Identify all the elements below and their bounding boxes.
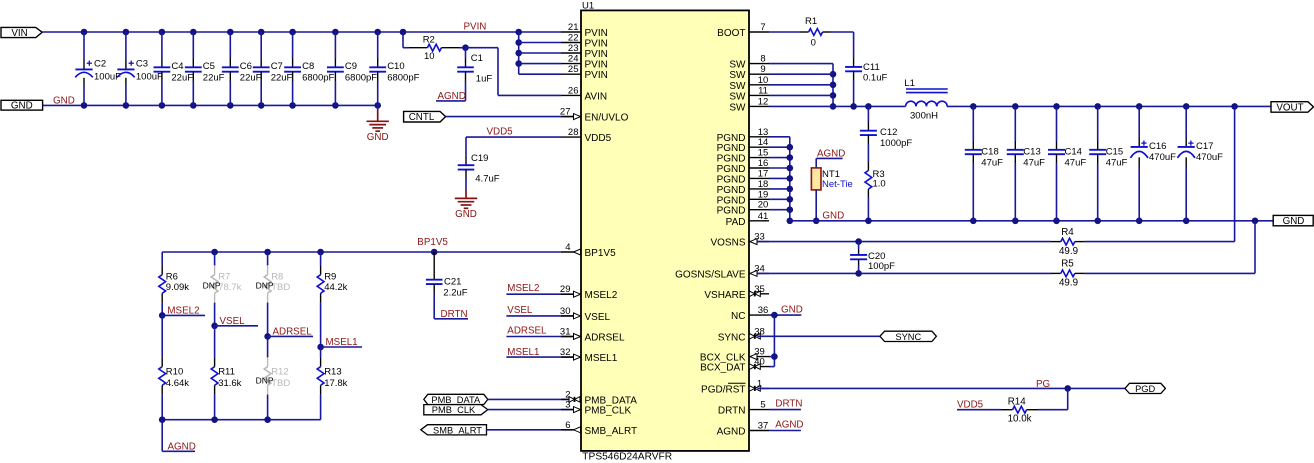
U1 pin 4 BP1V5 [561, 242, 616, 259]
svg-text:2.2uF: 2.2uF [443, 288, 467, 299]
svg-text:C11: C11 [863, 62, 880, 73]
port GND (left) [1, 100, 43, 111]
svg-text:VOSNS: VOSNS [710, 238, 745, 249]
svg-text:100uF: 100uF [136, 72, 163, 83]
svg-text:PMB_DATA: PMB_DATA [431, 395, 481, 405]
U1 pin 29 MSEL2 [560, 284, 618, 301]
port PGD [1125, 383, 1166, 394]
net label VSEL (pin 30) [506, 305, 573, 316]
wire PGD/RST [757, 385, 1125, 392]
resistor R9 [317, 252, 347, 347]
capacitor C19 [458, 153, 500, 190]
wire NC/BCX tie [769, 312, 801, 367]
svg-text:C6: C6 [240, 61, 252, 72]
svg-text:BOOT: BOOT [717, 28, 745, 39]
svg-text:8: 8 [760, 54, 765, 65]
svg-text:GND: GND [11, 101, 33, 112]
svg-text:PVIN: PVIN [585, 60, 608, 71]
svg-text:23: 23 [568, 43, 579, 54]
svg-text:25: 25 [568, 64, 579, 75]
power port AGND (divider) [162, 420, 196, 453]
svg-text:TBD: TBD [271, 378, 290, 389]
svg-text:DNP: DNP [256, 376, 274, 386]
U1 pin 39 BCX_CLK [700, 347, 769, 364]
svg-text:BP1V5: BP1V5 [585, 248, 617, 259]
svg-text:R10: R10 [166, 367, 183, 378]
svg-text:SYNC: SYNC [895, 332, 921, 342]
svg-text:PVIN: PVIN [464, 22, 487, 33]
U1 pin 2 PMB_DATA [561, 389, 637, 406]
resistor R13 [317, 347, 347, 420]
capacitor C14 [1048, 106, 1086, 220]
U1 pin 34 GOSNS/SLAVE [675, 263, 769, 280]
ground symbol (input rail) [367, 105, 389, 142]
port VOUT [1271, 102, 1314, 114]
svg-text:ADRSEL: ADRSEL [273, 326, 313, 337]
U1 pin 24 PVIN [561, 54, 608, 71]
U1 pin 23 PVIN [561, 43, 608, 60]
svg-text:470uF: 470uF [1149, 152, 1176, 163]
wire AVIN [466, 48, 562, 96]
svg-text:6800pF: 6800pF [387, 73, 419, 84]
svg-text:SW: SW [729, 70, 746, 81]
svg-text:PGND: PGND [717, 164, 746, 175]
capacitor C10 [369, 32, 419, 105]
wire VOUT rail [947, 103, 1271, 110]
capacitor C9 [327, 32, 377, 105]
U1 pin 26 AVIN [561, 85, 607, 102]
svg-text:9.09k: 9.09k [166, 282, 189, 293]
net-tie NT1 [811, 158, 852, 220]
wire SMB_ALRT [487, 429, 575, 431]
capacitor C13 [1007, 106, 1045, 220]
svg-text:PGD/RST: PGD/RST [701, 384, 745, 395]
svg-text:22: 22 [568, 33, 579, 44]
net label MSEL2 (divider) [159, 305, 205, 318]
svg-text:AGND: AGND [438, 91, 466, 102]
resistor R7 (DNP) [203, 252, 242, 326]
capacitor C7 [253, 32, 293, 105]
net label DRTN (pin 5) [769, 398, 802, 409]
svg-text:6800pF: 6800pF [345, 73, 377, 84]
svg-text:7: 7 [760, 22, 765, 33]
svg-text:21: 21 [568, 22, 579, 33]
svg-text:C21: C21 [444, 276, 461, 287]
power port DRTN (C21) [434, 309, 468, 320]
net label BP1V5 [417, 237, 448, 248]
svg-text:29: 29 [560, 284, 571, 295]
svg-text:MSEL2: MSEL2 [585, 290, 618, 301]
U1 pin 22 PVIN [561, 33, 608, 50]
svg-text:C4: C4 [171, 61, 183, 72]
resistor R4 [1051, 106, 1235, 256]
svg-text:BP1V5: BP1V5 [417, 237, 448, 248]
svg-text:PMB_CLK: PMB_CLK [432, 405, 476, 415]
U1 pin 35 VSHARE [704, 284, 769, 301]
resistor R8 (DNP) [256, 252, 291, 336]
U1 pin 13 PGND [717, 127, 769, 144]
wire SW rail [833, 103, 906, 110]
svg-text:SW: SW [729, 102, 746, 113]
svg-text:470uF: 470uF [1196, 152, 1223, 163]
svg-text:C12: C12 [880, 127, 897, 138]
svg-text:1.0: 1.0 [873, 178, 886, 189]
wire BP1V5 rail [162, 249, 561, 256]
resistor R12 (DNP) [256, 336, 291, 419]
power port AGND (C1) [436, 91, 466, 102]
net label ADRSEL (pin 31) [506, 325, 573, 336]
resistor R5 [1051, 221, 1255, 289]
svg-text:22uF: 22uF [171, 73, 193, 84]
svg-text:47uF: 47uF [1065, 158, 1087, 169]
svg-text:PGND: PGND [717, 154, 746, 165]
wire GND rail (right) [790, 218, 1273, 225]
svg-text:300nH: 300nH [910, 111, 938, 122]
U1 pin 8 SW [729, 54, 769, 71]
svg-text:11: 11 [758, 85, 768, 96]
svg-text:L1: L1 [904, 78, 915, 89]
svg-text:3: 3 [565, 400, 570, 411]
svg-text:C1: C1 [471, 53, 483, 64]
svg-text:GND: GND [367, 132, 389, 143]
power port AGND (NT1) [816, 148, 845, 159]
wire VIN top rail [42, 29, 561, 36]
svg-text:PGD: PGD [1135, 384, 1155, 394]
svg-text:31: 31 [560, 327, 571, 338]
svg-text:C9: C9 [345, 61, 357, 72]
svg-text:12: 12 [758, 96, 769, 107]
svg-text:GND: GND [1283, 216, 1305, 227]
U1 pin 12 SW [729, 96, 769, 113]
svg-text:PGND: PGND [717, 195, 746, 206]
svg-text:C2: C2 [94, 59, 106, 70]
svg-text:GND: GND [455, 209, 477, 220]
svg-text:VSEL: VSEL [220, 316, 246, 327]
U1 pin 40 BCX_DAT [700, 357, 769, 374]
svg-text:R13: R13 [324, 367, 341, 378]
wire VOSNS [757, 238, 1051, 245]
svg-text:22uF: 22uF [240, 73, 262, 84]
svg-text:SMB_ALRT: SMB_ALRT [585, 426, 638, 437]
U1 pin 17 PGND [717, 168, 769, 185]
U1 pin 31 ADRSEL [560, 327, 625, 344]
svg-text:Net-Tie: Net-Tie [822, 179, 853, 190]
U1 pin 30 VSEL [560, 306, 611, 323]
net label MSEL2 (pin 29) [506, 283, 573, 294]
svg-text:47uF: 47uF [981, 158, 1003, 169]
port PMB_DATA [424, 394, 488, 405]
capacitor C12 [860, 106, 913, 162]
capacitor C6 [222, 32, 262, 105]
svg-text:GOSNS/SLAVE: GOSNS/SLAVE [675, 269, 746, 280]
U1 pin 38 SYNC [718, 326, 769, 343]
svg-text:PVIN: PVIN [585, 28, 608, 39]
net label VSEL (divider) [211, 316, 258, 329]
svg-text:41: 41 [758, 211, 769, 222]
svg-text:SYNC: SYNC [718, 332, 746, 343]
svg-text:4: 4 [565, 242, 570, 253]
svg-text:16: 16 [758, 158, 769, 169]
U1 pin 15 PGND [717, 148, 769, 165]
svg-text:C13: C13 [1023, 147, 1040, 158]
capacitor C15 [1089, 106, 1127, 220]
svg-text:DRTN: DRTN [775, 398, 802, 409]
capacitor C4 [154, 32, 194, 105]
svg-text:R1: R1 [805, 16, 817, 27]
svg-text:R9: R9 [324, 271, 336, 282]
U1 pin 21 PVIN [561, 22, 608, 39]
svg-text:C3: C3 [136, 59, 148, 70]
svg-text:18: 18 [758, 179, 769, 190]
U1 pin 33 VOSNS [710, 232, 769, 249]
svg-text:47uF: 47uF [1023, 158, 1045, 169]
svg-text:VDD5: VDD5 [487, 127, 514, 138]
svg-text:20: 20 [758, 200, 769, 211]
svg-text:U1: U1 [582, 1, 594, 12]
wire PMB_DATA [488, 398, 569, 400]
svg-text:SW: SW [729, 91, 746, 102]
capacitor C3 [117, 32, 163, 105]
svg-text:37: 37 [758, 421, 769, 432]
svg-text:6: 6 [565, 420, 570, 431]
U1 pin 36 NC [731, 305, 769, 322]
svg-text:R12: R12 [271, 367, 288, 378]
resistor R11 [211, 326, 241, 420]
svg-text:C19: C19 [471, 153, 488, 164]
capacitor C1 [457, 44, 492, 101]
svg-text:49.9: 49.9 [1059, 278, 1078, 289]
U1 pin 18 PGND [717, 179, 769, 196]
svg-text:15: 15 [758, 148, 769, 159]
wire GND bottom rail (left) [43, 102, 381, 109]
U1 pin 3 PMB_CLK [561, 400, 632, 417]
net label MSEL1 (divider) [317, 337, 362, 350]
svg-text:EN/UVLO: EN/UVLO [585, 113, 629, 124]
U1 pin 5 DRTN [718, 400, 769, 417]
U1 pin 19 PGND [717, 189, 769, 206]
wire VDD5 [466, 137, 561, 156]
svg-text:4.64k: 4.64k [166, 378, 189, 389]
svg-text:19: 19 [758, 189, 769, 200]
svg-text:VSEL: VSEL [507, 305, 533, 316]
port PMB_CLK [424, 405, 488, 416]
svg-text:VIN: VIN [11, 28, 27, 39]
inductor L1 [904, 78, 947, 122]
net label AGND (pin 37) [769, 419, 804, 430]
svg-text:22uF: 22uF [271, 73, 293, 84]
svg-text:PGND: PGND [717, 143, 746, 154]
capacitor C16 [1130, 106, 1176, 220]
svg-text:TPS546D24ARVFR: TPS546D24ARVFR [582, 452, 672, 463]
svg-text:GND: GND [781, 305, 803, 316]
svg-text:17.8k: 17.8k [324, 378, 347, 389]
port GND (right) [1273, 215, 1313, 227]
capacitor C11 [845, 32, 887, 106]
svg-text:1uF: 1uF [476, 74, 493, 85]
svg-text:CNTL: CNTL [409, 112, 435, 123]
svg-text:AGND: AGND [168, 442, 196, 453]
resistor R1 [769, 16, 854, 49]
U1 pin 41 PAD [726, 211, 769, 228]
svg-text:DRTN: DRTN [718, 406, 746, 417]
svg-text:C10: C10 [387, 61, 404, 72]
svg-text:31.6k: 31.6k [218, 378, 241, 389]
U1 pin 16 PGND [717, 158, 769, 175]
svg-text:AVIN: AVIN [585, 91, 608, 102]
svg-text:VOUT: VOUT [1276, 102, 1303, 113]
svg-text:49.9: 49.9 [1059, 246, 1078, 257]
svg-text:4.7uF: 4.7uF [475, 173, 499, 184]
svg-text:DRTN: DRTN [441, 309, 468, 320]
svg-text:AGND: AGND [775, 419, 803, 430]
capacitor C17 [1177, 106, 1223, 220]
svg-text:78.7k: 78.7k [218, 282, 241, 293]
U1 pin 37 AGND [717, 421, 769, 438]
svg-text:32: 32 [560, 347, 571, 358]
svg-text:SW: SW [729, 81, 746, 92]
wire PMB_CLK [488, 409, 573, 411]
capacitor C8 [284, 32, 334, 105]
svg-text:PVIN: PVIN [585, 70, 608, 81]
wire PVIN pin fanout [515, 32, 561, 74]
svg-text:10: 10 [758, 75, 769, 86]
U1 pin 7 BOOT [717, 22, 769, 39]
svg-text:24: 24 [568, 54, 579, 65]
svg-text:27: 27 [560, 107, 571, 118]
svg-text:GND: GND [822, 210, 844, 221]
U1 pin 11 SW [729, 85, 769, 102]
net label PG [1036, 379, 1050, 390]
svg-text:MSEL2: MSEL2 [167, 305, 199, 316]
U1 pin 32 MSEL1 [560, 347, 618, 364]
svg-text:5: 5 [760, 400, 765, 411]
svg-text:PGND: PGND [717, 206, 746, 217]
svg-text:C18: C18 [981, 147, 998, 158]
svg-text:R2: R2 [423, 34, 435, 45]
svg-text:MSEL1: MSEL1 [326, 337, 358, 348]
U1 pin 14 PGND [717, 137, 769, 154]
svg-text:C5: C5 [203, 61, 215, 72]
net label MSEL1 (pin 32) [506, 347, 573, 358]
svg-text:100pF: 100pF [868, 261, 895, 272]
resistor R3 [865, 162, 886, 221]
capacitor C18 [965, 106, 1003, 220]
net label GND (left rail) [53, 95, 75, 106]
U1 pin 1 PGD/RST [701, 378, 769, 395]
svg-text:17: 17 [758, 168, 769, 179]
svg-text:MSEL1: MSEL1 [585, 353, 618, 364]
resistor R10 [159, 315, 189, 419]
svg-text:28: 28 [568, 127, 579, 138]
svg-text:22uF: 22uF [203, 73, 225, 84]
svg-text:13: 13 [758, 127, 769, 138]
svg-text:R4: R4 [1061, 227, 1074, 238]
wire EN/UVLO [446, 116, 573, 118]
svg-text:PVIN: PVIN [585, 49, 608, 60]
port CNTL [404, 111, 446, 123]
svg-text:DNP: DNP [203, 280, 221, 290]
svg-text:26: 26 [568, 85, 579, 96]
svg-text:ADRSEL: ADRSEL [585, 333, 625, 344]
U1 pin 20 PGND [717, 200, 769, 217]
capacitor C21 [426, 252, 468, 319]
svg-text:0: 0 [811, 38, 816, 49]
net label VDD5 [487, 127, 514, 138]
svg-text:14: 14 [758, 137, 769, 148]
svg-text:C8: C8 [302, 61, 314, 72]
wire SYNC [757, 335, 880, 337]
wire SW pin fanout [769, 64, 836, 110]
wire GOSNS [757, 270, 1051, 277]
svg-text:PMB_CLK: PMB_CLK [585, 406, 632, 417]
op-amp U1 TPS546D24ARVFR body [581, 1, 749, 463]
net label GND (NT1) [813, 210, 844, 224]
port SMB_ALRT [421, 425, 487, 436]
svg-text:47uF: 47uF [1106, 158, 1128, 169]
svg-text:NC: NC [731, 311, 745, 322]
capacitor C2 [75, 32, 121, 105]
svg-text:C17: C17 [1196, 141, 1213, 152]
svg-text:10.0k: 10.0k [1008, 414, 1032, 425]
svg-text:R14: R14 [1008, 397, 1027, 408]
wire PGND fanout [769, 137, 793, 224]
svg-text:R11: R11 [218, 367, 235, 378]
svg-text:PAD: PAD [726, 217, 746, 228]
svg-text:MSEL2: MSEL2 [507, 283, 539, 294]
svg-text:SMB_ALRT: SMB_ALRT [433, 425, 482, 435]
U1 pin 9 SW [729, 64, 769, 81]
resistor R2 [403, 32, 466, 62]
U1 pin 25 PVIN [561, 64, 608, 81]
svg-text:DNP: DNP [256, 280, 274, 290]
svg-text:R6: R6 [166, 271, 178, 282]
svg-text:9: 9 [760, 64, 765, 75]
svg-text:R5: R5 [1061, 259, 1074, 270]
svg-text:36: 36 [758, 305, 769, 316]
svg-text:30: 30 [560, 306, 571, 317]
svg-text:1000pF: 1000pF [880, 138, 912, 149]
svg-text:VDD5: VDD5 [585, 133, 612, 144]
svg-text:BCX_DAT: BCX_DAT [700, 363, 745, 374]
resistor R14 [957, 388, 1068, 424]
svg-text:AGND: AGND [717, 427, 746, 438]
net label GND (pin 36) [781, 305, 803, 316]
svg-text:C14: C14 [1065, 147, 1082, 158]
svg-text:ADRSEL: ADRSEL [507, 325, 547, 336]
svg-text:10: 10 [424, 51, 435, 62]
U1 pin 10 SW [729, 75, 769, 92]
svg-text:VSEL: VSEL [585, 312, 611, 323]
svg-text:TBD: TBD [271, 282, 290, 293]
ground symbol (C19) [455, 190, 477, 220]
port SYNC [880, 331, 937, 342]
U1 pin 28 VDD5 [561, 127, 612, 144]
U1 pin 27 EN/UVLO [560, 107, 629, 124]
capacitor C5 [185, 32, 225, 105]
svg-text:PGND: PGND [717, 174, 746, 185]
U1 pin 6 SMB_ALRT [561, 420, 637, 437]
wire divider bottom rail [159, 416, 321, 423]
resistor R6 [159, 252, 189, 315]
svg-text:C15: C15 [1106, 147, 1123, 158]
svg-text:C16: C16 [1149, 141, 1166, 152]
net label ADRSEL (divider) [264, 326, 313, 339]
svg-text:6800pF: 6800pF [302, 73, 334, 84]
svg-text:PGND: PGND [717, 133, 746, 144]
capacitor C20 [850, 242, 895, 274]
svg-text:PVIN: PVIN [585, 39, 608, 50]
svg-text:PGND: PGND [717, 185, 746, 196]
